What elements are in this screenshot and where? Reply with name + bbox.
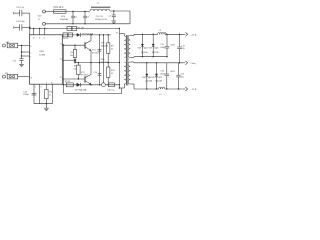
capacitor C9 on bus (98, 49, 102, 51)
wire drive rail y34.9 (62, 34, 111, 36)
transformer T1 secondary winding upper (128, 36, 130, 58)
capacitor C13 with value label (14, 21, 30, 30)
output terminal -12V (184, 87, 197, 91)
wire VT2 emitter down (90, 84, 91, 85)
wire right vertical drop x130 (129, 11, 131, 24)
svg-text:Общ.: Общ. (191, 63, 197, 65)
wire primary bus x119.4 (118, 29, 120, 89)
svg-text:1000µ: 1000µ (23, 94, 29, 96)
connector SA1 group (3, 41, 30, 48)
svg-text:КТ3107: КТ3107 (81, 75, 89, 77)
svg-text:10к: 10к (73, 68, 76, 70)
svg-text:КД213А: КД213А (145, 80, 152, 83)
wire bottom bus (34, 103, 52, 105)
resistor R10 (107, 53, 110, 85)
svg-text:2200µ: 2200µ (160, 47, 166, 49)
wire secondary tap 3 (130, 61, 134, 64)
transistor VT2 (85, 75, 91, 85)
svg-text:R5: R5 (70, 52, 72, 54)
wire vertical x103.4 to lamp (103, 34, 104, 83)
fuse FU1 10A (46, 6, 67, 13)
svg-text:10: 10 (60, 77, 62, 79)
svg-text:R8 51: R8 51 (65, 81, 71, 83)
pin stub DA1 bottom pin 6 (39, 84, 41, 104)
svg-text:12: 12 (33, 37, 35, 39)
label C19 (180, 74, 184, 79)
pin stub DA1 bottom pin 13 (51, 84, 53, 104)
AC input terminal X1 (37, 8, 46, 20)
label VD11a (152, 77, 162, 79)
svg-text:КД213А: КД213А (152, 51, 159, 54)
pin stub DA1 bottom pin 5 (33, 84, 35, 104)
svg-text:КТ3107: КТ3107 (92, 52, 100, 54)
wire bottom line y84.8 (62, 84, 119, 86)
svg-text:VD10: VD10 (142, 77, 147, 79)
svg-text:C13 470µ: C13 470µ (16, 21, 26, 23)
wire secondary tap 4 (130, 84, 134, 89)
wire primary top hook (119, 34, 124, 37)
capacitor C7 to ground (109, 10, 116, 20)
label C17 (181, 45, 185, 50)
svg-text:14: 14 (60, 58, 62, 60)
wire vertical bus left of DA1 (29, 13, 31, 35)
capacitor C12 with value label (14, 7, 30, 16)
svg-text:C17: C17 (181, 45, 184, 47)
label VD5 (101, 43, 109, 48)
capacitor C15 to ground (13, 59, 24, 63)
output terminal +12V (184, 32, 197, 36)
capacitor C14 on pin 5 (32, 93, 37, 95)
diode VD2 below R5 (74, 60, 77, 63)
junction dot node A (21, 45, 22, 46)
svg-text:C12 0,7µ: C12 0,7µ (16, 7, 25, 9)
diode VD7 (77, 83, 81, 87)
pin stub DA1 left y56 (21, 55, 30, 56)
svg-text:C8 0,1µ: C8 0,1µ (107, 89, 115, 91)
wire top AC line (66, 11, 90, 13)
svg-text:1к: 1к (49, 94, 51, 96)
svg-text:КД521А: КД521А (101, 44, 109, 47)
svg-text:8: 8 (44, 37, 45, 39)
wire IC side drop (63, 44, 64, 93)
svg-text:+12 В: +12 В (191, 34, 197, 36)
svg-text:КД213А: КД213А (141, 51, 148, 54)
wire ground drop (46, 103, 47, 107)
resistor R6 (77, 63, 80, 80)
junction dots +V rail (142, 34, 143, 35)
svg-text:VD8: VD8 (138, 47, 142, 49)
wire vertical bus x21.5 (21, 46, 23, 59)
svg-text:R4 51: R4 51 (63, 38, 68, 40)
junction dots mid rail (74, 62, 75, 63)
filter choke L1 with core bar (90, 3, 111, 11)
svg-text:2: 2 (30, 53, 31, 55)
svg-text:×16 В: ×16 В (170, 44, 176, 47)
output terminal GND (184, 61, 197, 65)
svg-text:11: 11 (60, 43, 62, 45)
inductor L2 (158, 30, 166, 35)
wire vertical bus x99.5 (99, 35, 101, 85)
svg-text:TL494: TL494 (39, 54, 46, 56)
ground symbol below C15 (21, 63, 23, 64)
svg-text:КД21: КД21 (154, 47, 158, 49)
svg-text:R1, R2: R1, R2 (78, 27, 86, 29)
svg-text:10к: 10к (70, 55, 73, 57)
ground symbol main (45, 107, 47, 108)
wire primary bottom hook (119, 84, 124, 88)
resistor R8 (65, 81, 74, 87)
svg-text:VD5: VD5 (101, 43, 105, 45)
resistor R4 (68, 33, 73, 37)
capacitor C18 (165, 63, 169, 89)
resistor R3 (63, 33, 68, 37)
label VD6 (101, 59, 109, 64)
svg-text:~220: ~220 (37, 15, 43, 17)
wire rail mid-upper y56.7 (134, 56, 167, 58)
svg-text:КД521А: КД521А (101, 61, 109, 64)
pin stub DA1 y60.2 (62, 59, 75, 60)
svg-text:×16 В: ×16 В (170, 70, 176, 73)
transformer T1 primary winding lower (124, 62, 126, 84)
label VD9 (149, 47, 159, 49)
lamp HL1 (102, 83, 106, 87)
diode VD12 VD13 pair lower-left (146, 63, 148, 90)
diode VD14 VD15 pair lower-right (155, 63, 157, 90)
capacitor C1 across mains (71, 11, 78, 25)
label VD10a (142, 77, 152, 79)
junction dots mid-upper rail (142, 56, 143, 57)
capacitor C8 snubber box (108, 83, 120, 87)
junction dots on feedback line (33, 28, 34, 29)
wire VT1 emitter down (90, 51, 92, 63)
resistor R5 (73, 44, 76, 59)
label C16 (160, 44, 166, 49)
capacitor C10 on bus (98, 74, 102, 76)
wire mid rail y62.6 (75, 62, 119, 64)
transformer T1 core (125, 35, 127, 86)
resistor R2 (72, 27, 77, 31)
label C14 (23, 91, 29, 96)
svg-text:5: 5 (35, 87, 36, 89)
pin stub DA1 top pin 11 (39, 29, 41, 35)
junction dot feedback at primary bus (119, 28, 120, 29)
resistor R11 on pin 7 (45, 84, 48, 104)
svg-text:КД21: КД21 (158, 77, 162, 79)
ground symbol near C7 (113, 20, 115, 21)
svg-text:L3: L3 (159, 94, 161, 96)
svg-text:2200µ: 2200µ (160, 73, 166, 75)
svg-text:C5, C6: C5, C6 (96, 16, 104, 18)
label R5 (70, 52, 73, 57)
transformer T1 primary winding upper (124, 36, 126, 57)
wire rail +V y34.3 (134, 33, 184, 35)
label C18 (160, 71, 166, 76)
AC input terminal X2 (43, 22, 46, 25)
diode VD1 (77, 33, 81, 37)
junction dot cap bus (29, 27, 30, 30)
wire bottom return up (119, 87, 122, 93)
caps C5 C6 value label (95, 16, 107, 21)
svg-text:КД21: КД21 (144, 47, 148, 49)
svg-text:11: 11 (39, 37, 41, 39)
svg-text:VD9: VD9 (149, 47, 153, 49)
diode VD8 VD9 pair upper-left (141, 34, 143, 56)
svg-text:VD11: VD11 (152, 77, 156, 79)
pin stub DA1 left y52 (21, 51, 30, 52)
svg-text:C16: C16 (160, 44, 163, 46)
pin stub DA1 base drive 1 (62, 44, 85, 46)
label VD8 (138, 47, 148, 49)
junction dots bus x99.5 (99, 34, 100, 35)
capacitor C2 across mains (83, 11, 90, 25)
svg-text:FU1 10 А: FU1 10 А (54, 6, 64, 9)
label R6 (73, 66, 76, 71)
svg-text:C10: C10 (94, 72, 97, 74)
pin stub DA1 top pin 8 (44, 29, 46, 35)
resistor R1 (67, 27, 72, 31)
capacitor C19 (176, 63, 180, 89)
svg-text:VD6: VD6 (101, 59, 105, 61)
capacitor C17 (177, 34, 181, 63)
svg-text:16: 16 (30, 77, 32, 79)
label R9 (111, 46, 114, 51)
wire feedback line y28.5 (30, 28, 120, 30)
inductor L3 (159, 87, 166, 96)
wire rail -V y89.0 (134, 88, 184, 90)
connector XP2 group (3, 73, 30, 79)
wire secondary tap 1 (130, 34, 134, 35)
svg-text:6: 6 (41, 87, 42, 89)
svg-text:−12 В: −12 В (191, 89, 197, 91)
svg-text:C15: C15 (13, 60, 16, 62)
svg-text:C19: C19 (180, 74, 183, 76)
wire rail GND y62.8 (134, 62, 184, 64)
controller IC DA1 TL494 (30, 35, 63, 84)
svg-text:1: 1 (30, 57, 31, 59)
svg-text:C18: C18 (160, 71, 163, 73)
svg-text:КЦ405А: КЦ405А (60, 18, 68, 21)
svg-text:4: 4 (30, 46, 31, 48)
svg-text:VD3 КД510А: VD3 КД510А (82, 32, 94, 35)
wire VT1 collector up (90, 34, 91, 40)
wire bottom AC line (46, 23, 131, 25)
svg-text:VD7 КД510А: VD7 КД510А (75, 88, 87, 91)
svg-text:R6: R6 (74, 66, 76, 68)
pin stub DA1 top pin 12 (33, 29, 35, 35)
svg-text:КД213А: КД213А (155, 80, 162, 83)
junction dots GND rail (146, 62, 147, 63)
label R10 (111, 70, 116, 75)
resistor R9 (107, 34, 110, 53)
bridge rectifier VD4 label (60, 16, 68, 21)
transistor VT1 (85, 41, 91, 51)
wire secondary tap 2 (130, 56, 134, 59)
wire choke to corner (110, 10, 130, 12)
label R11 (49, 92, 53, 97)
transformer T1 secondary winding lower (128, 62, 130, 84)
wire bottom return y93.5 (64, 93, 122, 95)
diode VD10 VD11 pair upper-right (152, 34, 154, 56)
svg-text:2200µ×16 В: 2200µ×16 В (95, 18, 107, 21)
pin stub DA1 base drive 2 (62, 78, 85, 80)
junction dots -V rail (166, 88, 167, 89)
capacitor C16 (165, 34, 169, 56)
wire VT2 collector up (90, 63, 92, 75)
